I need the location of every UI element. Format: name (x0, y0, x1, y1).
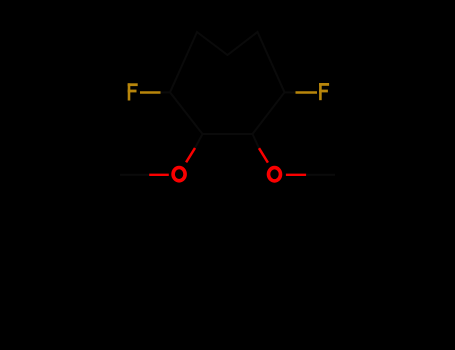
bond F left (gold half) (140, 91, 161, 94)
wire: dark methyl tail left (120, 174, 149, 176)
bond O-ring right (red half) (259, 148, 268, 162)
atom O right (269, 168, 281, 181)
atom F right (319, 83, 329, 100)
bond O-CH3 right (red half) (286, 174, 306, 176)
wire: dark half of O-ring bond left (195, 134, 203, 148)
atom F left (128, 83, 138, 100)
ring (dark carbon skeleton, bicyclic top) (170, 32, 285, 134)
wire: dark half of O-ring bond right (253, 134, 260, 148)
bond O-ring left (red half) (186, 148, 195, 162)
wire: dark methyl tail right (306, 174, 335, 176)
bond F right (gold half) (296, 91, 318, 94)
wire: dark half of F bond left (161, 91, 171, 93)
wire: dark half of F bond right (285, 91, 296, 93)
atom O left (173, 168, 185, 181)
bond O-CH3 left (red half) (149, 174, 169, 176)
